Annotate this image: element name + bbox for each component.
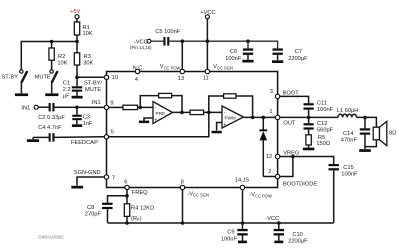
svg-text:-VCC SGN: -VCC SGN — [187, 191, 209, 197]
svg-text:3: 3 — [270, 89, 273, 95]
label R1 10K — [83, 25, 93, 37]
svg-text:270pF: 270pF — [85, 212, 102, 218]
wire VREG — [280, 157, 334, 165]
label C6 100nF — [225, 49, 242, 62]
pin 2 BOOTDIODE — [268, 169, 280, 179]
inductor L1 — [338, 114, 356, 117]
capacitor C3 — [72, 107, 81, 124]
wire pin 9 to input resistor — [109, 106, 123, 108]
wire PRE plus input — [144, 118, 153, 121]
svg-text:+: + — [223, 122, 226, 128]
label C9 100nF — [221, 230, 238, 243]
svg-text:100nF: 100nF — [341, 172, 358, 178]
node C3 top — [75, 106, 79, 110]
svg-text:C4 4.7nF: C4 4.7nF — [38, 125, 62, 131]
ground under C6 — [242, 60, 253, 63]
svg-text:C10: C10 — [292, 232, 302, 238]
wire PWM plus input — [217, 123, 222, 131]
terminal IN1 — [21, 105, 38, 111]
svg-text:FREQ: FREQ — [132, 190, 148, 196]
wire C1 node to pin 10 — [77, 76, 104, 78]
svg-text:8: 8 — [181, 179, 184, 185]
svg-text:1: 1 — [269, 109, 272, 115]
wire C4 to pin 5 — [55, 136, 105, 139]
svg-text:C2 0.33µF: C2 0.33µF — [38, 115, 65, 121]
svg-text:-VCC: -VCC — [265, 216, 279, 222]
svg-text:10: 10 — [112, 75, 118, 81]
wire PWM feedback up — [209, 96, 224, 112]
pin 3 BOOT — [270, 89, 280, 98]
node VREG loop — [291, 155, 295, 159]
op-amp PRE — [153, 102, 173, 124]
pin 14,15 — [235, 178, 249, 190]
svg-text:150Ω: 150Ω — [316, 141, 330, 147]
svg-text:VCC POW: VCC POW — [160, 64, 181, 70]
ground under C3 — [72, 124, 82, 127]
svg-text:R1: R1 — [83, 25, 90, 31]
svg-text:N.C.: N.C. — [133, 65, 145, 71]
svg-text:R3: R3 — [84, 54, 91, 60]
svg-text:C5 100nF: C5 100nF — [155, 29, 181, 35]
svg-text:14,15: 14,15 — [235, 178, 249, 184]
svg-text:C8: C8 — [87, 205, 94, 211]
node R1/R3 junction — [75, 40, 79, 44]
capacitor C2 — [49, 103, 55, 111]
svg-text:470nF: 470nF — [341, 137, 358, 143]
ground under ST-BY — [15, 93, 28, 96]
pin 5 FEEDCAP — [104, 129, 113, 139]
svg-text:560pF: 560pF — [317, 127, 334, 133]
svg-text:6: 6 — [124, 180, 127, 186]
wire to PRE minus input — [138, 106, 154, 108]
svg-text:12: 12 — [266, 154, 272, 160]
node R2 top junction — [50, 40, 54, 44]
svg-text:+: + — [154, 118, 157, 124]
svg-text:IN1: IN1 — [21, 105, 30, 111]
svg-text:SGN-GND: SGN-GND — [74, 170, 101, 176]
op-amp PWM — [222, 106, 244, 128]
pin 12 VREG — [266, 154, 280, 160]
pin 6 FREQ — [124, 180, 129, 190]
capacitor C14 — [360, 117, 370, 149]
wire FEEDCAP internal — [109, 112, 209, 136]
pin 7 SGN-GND — [104, 175, 115, 182]
pin 9 IN1 — [104, 100, 113, 109]
svg-text:(Pin 14,15): (Pin 14,15) — [130, 45, 152, 50]
svg-text:10K: 10K — [57, 61, 67, 67]
svg-text:100nF: 100nF — [317, 107, 334, 113]
capacitor C7 — [273, 48, 283, 60]
switch MUTE — [50, 70, 57, 94]
svg-text:R2: R2 — [58, 54, 65, 60]
svg-text:9: 9 — [110, 100, 113, 106]
wire -VCC to C5 — [151, 40, 164, 42]
wire pin 7 to ground — [77, 177, 104, 186]
label C8 270pF — [85, 205, 102, 218]
label R3 30K — [83, 54, 93, 66]
svg-text:D98AU938C: D98AU938C — [38, 234, 64, 239]
svg-text:7: 7 — [112, 176, 115, 182]
wire pin 6 to FREQ node — [108, 190, 128, 203]
svg-text:2: 2 — [268, 169, 271, 175]
svg-text:100nF: 100nF — [221, 236, 238, 242]
svg-text:C7: C7 — [295, 49, 302, 55]
wire to PWM minus input — [204, 111, 222, 113]
resistor input (internal) — [123, 105, 138, 109]
pin 1 OUT — [269, 109, 279, 120]
svg-text:13: 13 — [178, 76, 184, 82]
svg-text:VCC SGN: VCC SGN — [213, 64, 233, 70]
label C12 560pF — [317, 121, 334, 133]
svg-text:2200µF: 2200µF — [288, 56, 308, 62]
resistor PWM feedback (internal) — [224, 94, 236, 98]
capacitor C8 — [102, 203, 113, 223]
wire PRE feedback up — [140, 96, 158, 108]
svg-text:30K: 30K — [83, 61, 93, 67]
svg-text:(RF): (RF) — [131, 216, 142, 222]
svg-text:L1 60µH: L1 60µH — [337, 108, 359, 114]
label C7 2200uF — [288, 49, 308, 62]
label R2 10K — [57, 54, 67, 66]
wire C2 to pin 9 — [55, 106, 105, 108]
power terminal +5V — [70, 9, 80, 22]
pin 11 Vcc SGN — [203, 69, 210, 81]
node rail/C6 — [246, 39, 250, 43]
svg-text:5: 5 — [111, 129, 114, 135]
resistor R1 — [74, 22, 79, 42]
svg-text:FEEDCAP: FEEDCAP — [71, 140, 98, 146]
speaker 8 ohm — [373, 121, 387, 145]
svg-text:MUTE: MUTE — [35, 75, 51, 81]
label R4 12Kohm — [131, 206, 154, 223]
ground under C10 — [274, 241, 283, 244]
svg-text:µF: µF — [63, 94, 70, 100]
ground left of C4 — [27, 137, 39, 142]
capacitor C11 — [304, 103, 314, 117]
pin 4 N.C. — [133, 65, 145, 83]
svg-text:100nF: 100nF — [225, 56, 242, 62]
svg-text:C14: C14 — [343, 131, 353, 137]
label C14 470nF — [341, 131, 358, 143]
capacitor C9 — [237, 223, 247, 241]
resistor R4 — [124, 196, 129, 223]
svg-text:MUTE: MUTE — [85, 87, 101, 93]
terminal +VCC — [200, 10, 215, 41]
resistor R3 — [74, 42, 79, 78]
node PWM input — [207, 111, 211, 115]
diode bootstrap (internal) — [259, 117, 267, 176]
svg-text:OUT: OUT — [283, 121, 296, 127]
label C1 2.2 uF — [63, 81, 71, 100]
wire bottom -VCC rail — [108, 222, 334, 224]
node A feedback tap — [139, 106, 143, 110]
capacitor C10 — [274, 223, 284, 241]
node rail/pin13 — [181, 39, 185, 43]
wire pin 14,15 drop — [242, 190, 244, 223]
wire diode to pin 2 — [263, 176, 275, 178]
wire PWM out to pin 1 — [244, 116, 276, 118]
ground under C14/speaker — [359, 149, 371, 152]
node PRE output/feedback — [180, 111, 184, 115]
capacitor C12 — [304, 117, 314, 134]
capacitor C5 — [163, 37, 169, 46]
label ST-BY/MUTE net — [84, 81, 102, 93]
svg-text:BOOTDIODE: BOOTDIODE — [283, 182, 317, 188]
wire pin 8 drop — [182, 190, 184, 223]
svg-text:R5: R5 — [318, 135, 325, 141]
svg-text:C3: C3 — [83, 115, 90, 121]
node C11/C12 on OUT — [307, 116, 311, 120]
svg-text:2.2: 2.2 — [63, 87, 71, 93]
node rail/pin11 — [206, 39, 210, 43]
wire rail to pin 11 — [206, 41, 208, 69]
label C15 100nF — [341, 165, 358, 178]
resistor interstage (internal) — [190, 110, 204, 114]
terminal -VCC — [134, 39, 151, 45]
svg-text:IN1: IN1 — [92, 100, 101, 106]
ground SGN-GND — [71, 186, 83, 189]
node diode top — [262, 116, 266, 120]
node PWM output/feedback — [251, 116, 255, 120]
wire L1 to speaker — [357, 117, 377, 127]
svg-text:2200µF: 2200µF — [288, 238, 308, 244]
wire switch rail — [21, 42, 77, 70]
svg-text:-: - — [224, 109, 226, 115]
svg-text:ST-BY/: ST-BY/ — [84, 81, 102, 87]
node pin 14,15 bottom — [241, 221, 245, 225]
ground under C7 — [272, 60, 283, 63]
wire VREG to pin 2 loop — [280, 157, 293, 177]
svg-text:C12: C12 — [317, 121, 327, 127]
resistor R2 — [49, 42, 54, 70]
svg-text:VREG: VREG — [283, 151, 299, 157]
svg-text:11: 11 — [203, 76, 209, 82]
switch ST-BY — [20, 70, 27, 94]
svg-text:+5V: +5V — [70, 9, 80, 15]
svg-text:8Ω: 8Ω — [389, 130, 396, 136]
ground PRE plus — [139, 121, 149, 124]
resistor R5 — [306, 135, 311, 148]
pin 8 — [180, 179, 184, 189]
ground under R5 — [303, 148, 314, 151]
label C10 2200uF — [288, 232, 308, 245]
wire PRE feedback down to output — [172, 96, 182, 113]
svg-text:10K: 10K — [83, 31, 93, 37]
wire speaker bottom to ground — [365, 140, 376, 147]
label C3 1nF — [83, 115, 93, 127]
svg-text:ST-BY: ST-BY — [2, 75, 19, 81]
svg-text:R4 12KΩ: R4 12KΩ — [131, 206, 154, 212]
svg-text:-: - — [155, 105, 157, 111]
capacitor C4 — [49, 133, 55, 141]
wire rail to pin 13 — [181, 41, 183, 69]
svg-text:PRE: PRE — [156, 111, 165, 116]
wire PRE out to interstage resistor — [173, 111, 191, 113]
wire PWM feedback down to output — [236, 96, 253, 117]
svg-text:C11: C11 — [317, 101, 327, 107]
resistor PRE feedback (internal) — [159, 93, 172, 97]
label R5 150ohm — [316, 135, 330, 147]
svg-text:1nF: 1nF — [83, 121, 93, 127]
node FREQ/R4 — [125, 194, 129, 198]
ground under MUTE — [45, 93, 58, 96]
svg-text:4: 4 — [135, 77, 138, 83]
svg-text:PWM: PWM — [225, 116, 236, 121]
svg-text:C6: C6 — [230, 49, 237, 55]
label C11 100nF — [317, 101, 334, 114]
capacitor C6 — [243, 41, 253, 60]
capacitor C15 — [329, 164, 339, 223]
ground under C1 — [72, 96, 83, 99]
ground under C9 — [238, 241, 247, 244]
wire IN1 to C2 — [38, 106, 48, 108]
svg-text:-VCC POW: -VCC POW — [249, 192, 272, 198]
svg-text:C15: C15 — [343, 165, 353, 171]
wire ground to C4 — [33, 136, 49, 138]
op-amp IC body TDA7482 outline — [107, 72, 278, 188]
node speaker/C14 — [363, 116, 367, 120]
capacitor C1 — [72, 77, 82, 96]
svg-text:BOOT: BOOT — [283, 90, 300, 96]
ground PWM plus — [212, 131, 222, 134]
wire +VCC rail — [169, 41, 277, 48]
node R4 bottom — [125, 221, 129, 225]
node C1 top — [75, 76, 79, 80]
wire OUT — [280, 116, 338, 118]
pin 10 ST-BY/MUTE — [104, 75, 118, 81]
pin 13 Vcc POW — [178, 69, 185, 82]
svg-text:C9: C9 — [227, 230, 234, 236]
node C10 top — [277, 221, 281, 225]
wire BOOT — [280, 96, 309, 103]
node pin 8 bottom — [181, 221, 185, 225]
svg-text:C1: C1 — [63, 81, 70, 87]
